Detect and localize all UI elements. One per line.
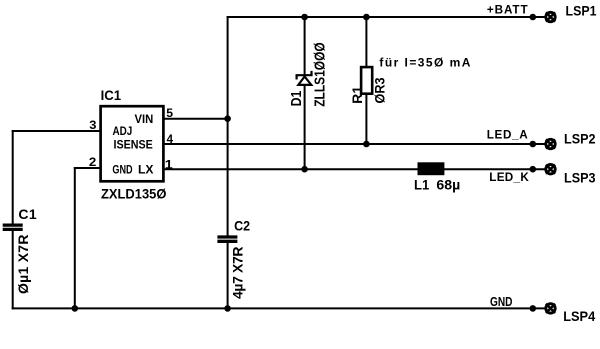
inductor L1 body: [418, 162, 445, 175]
junction C2 bottom: [224, 305, 231, 312]
resistor R1 body: [361, 67, 372, 94]
svg-text:5: 5: [166, 106, 173, 120]
wire GND pin 2 vertical branch: [74, 168, 76, 308]
junction D1 bottom: [301, 166, 308, 173]
solder pad LSP2: [546, 139, 555, 148]
junction R1 bottom: [363, 141, 370, 148]
svg-text:4: 4: [167, 132, 173, 146]
svg-text:ADJ: ADJ: [113, 125, 133, 138]
junction VIN pin 5: [224, 115, 231, 122]
diode D1 schottky triangle: [298, 77, 311, 85]
svg-text:LSP1: LSP1: [566, 2, 597, 18]
svg-text:1: 1: [165, 158, 173, 172]
svg-text:IC1: IC1: [101, 87, 122, 103]
svg-text:GND: GND: [490, 295, 513, 309]
svg-text:2: 2: [89, 155, 97, 169]
solder pad LSP4: [546, 304, 555, 313]
svg-text:ZLLS1ØØØ: ZLLS1ØØØ: [313, 42, 329, 107]
IC U1 box ZXLD1350: [101, 106, 164, 181]
svg-text:LSP2: LSP2: [564, 131, 596, 147]
wire C1 top vertical: [12, 131, 14, 224]
svg-text:68µ: 68µ: [436, 176, 460, 192]
wire C1 bottom to GND: [12, 231, 14, 309]
svg-text:VIN: VIN: [135, 113, 154, 126]
wire VIN/C2 vertical branch: [227, 17, 229, 236]
junction GND pin2 branch: [72, 305, 79, 312]
svg-text:Øµ1 X7R: Øµ1 X7R: [15, 235, 31, 295]
junction LED_K at LSP3: [530, 166, 537, 173]
diode D1 schottky cathode bar with hooks: [297, 71, 312, 80]
wire GND pin 2: [75, 167, 101, 169]
svg-text:ISENSE: ISENSE: [114, 139, 153, 152]
junction +BATT at LSP1: [530, 14, 537, 21]
svg-text:4µ7 X7R: 4µ7 X7R: [230, 247, 246, 300]
svg-text:GND: GND: [112, 164, 132, 177]
wire GND bottom horizontal: [13, 307, 545, 309]
wire VIN pin 5: [163, 118, 227, 120]
capacitor C2 plate bottom: [217, 240, 237, 243]
wire D1 branch vertical: [304, 17, 306, 169]
svg-text:LED_A: LED_A: [487, 128, 529, 141]
wire LED_K / LX pin 1: [163, 168, 545, 170]
junction GND at LSP4: [530, 305, 537, 312]
svg-text:LX: LX: [138, 164, 154, 177]
svg-text:R1: R1: [349, 86, 365, 104]
svg-text:D1: D1: [289, 91, 305, 107]
svg-text:LED_K: LED_K: [489, 171, 529, 184]
junction D1 top: [301, 14, 308, 21]
wire C2 bottom to GND: [227, 243, 229, 309]
capacitor C1 plate top: [3, 223, 23, 226]
wire ADJ pin 3: [13, 130, 101, 132]
svg-text:LSP3: LSP3: [564, 169, 596, 185]
svg-text:C1: C1: [18, 206, 37, 222]
svg-text:+BATT: +BATT: [487, 4, 529, 17]
capacitor C1 plate bottom: [3, 228, 23, 231]
wire R1 branch vertical: [365, 17, 367, 144]
solder pad LSP3: [546, 165, 555, 174]
capacitor C2 plate top: [217, 235, 237, 238]
svg-text:LSP4: LSP4: [563, 308, 595, 324]
svg-text:3: 3: [89, 118, 96, 132]
wire +BATT top horizontal: [228, 16, 545, 18]
wire LED_A / ISENSE pin 4: [163, 143, 545, 145]
svg-text:ØR3: ØR3: [371, 77, 387, 103]
svg-text:ZXLD135Ø: ZXLD135Ø: [101, 185, 166, 201]
junction LED_A at LSP2: [530, 141, 537, 148]
junction R1 top: [363, 14, 370, 21]
svg-text:für I=35Ø mA: für I=35Ø mA: [379, 55, 470, 69]
svg-text:C2: C2: [234, 218, 250, 234]
solder pad LSP1: [546, 12, 555, 21]
svg-text:L1: L1: [414, 176, 429, 192]
